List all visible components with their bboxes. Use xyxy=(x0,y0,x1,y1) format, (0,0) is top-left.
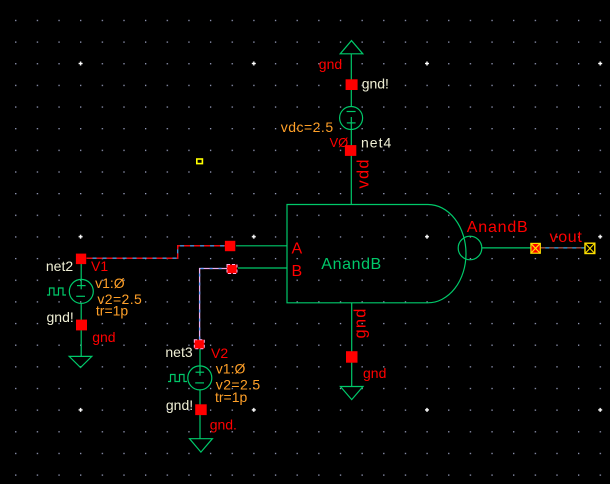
svg-text:gnd: gnd xyxy=(363,365,386,381)
svg-text:gnd: gnd xyxy=(319,56,342,72)
svg-text:vdc=2.5: vdc=2.5 xyxy=(281,119,334,135)
svg-text:net3: net3 xyxy=(165,344,192,360)
svg-text:tr=1p: tr=1p xyxy=(96,303,129,319)
svg-text:gnd: gnd xyxy=(92,329,115,345)
svg-text:A: A xyxy=(292,241,303,258)
svg-text:VØ: VØ xyxy=(330,135,349,150)
svg-text:net4: net4 xyxy=(361,135,392,151)
svg-text:gnd!: gnd! xyxy=(362,76,389,92)
svg-text:v1:Ø: v1:Ø xyxy=(216,361,246,377)
svg-text:B: B xyxy=(292,263,303,280)
svg-text:AnandB: AnandB xyxy=(467,219,529,236)
svg-text:gnd!: gnd! xyxy=(47,309,74,325)
svg-text:vout: vout xyxy=(550,229,583,246)
svg-text:vdd: vdd xyxy=(355,158,373,188)
svg-text:v1:Ø: v1:Ø xyxy=(95,275,125,291)
svg-text:net2: net2 xyxy=(46,258,73,274)
svg-text:V2: V2 xyxy=(211,345,228,361)
svg-text:tr=1p: tr=1p xyxy=(215,389,248,405)
svg-text:gnd!: gnd! xyxy=(166,397,193,413)
svg-text:V1: V1 xyxy=(91,258,108,274)
svg-text:gnd: gnd xyxy=(352,307,370,338)
svg-text:AnandB: AnandB xyxy=(321,256,382,273)
svg-text:gnd.: gnd. xyxy=(210,417,237,433)
